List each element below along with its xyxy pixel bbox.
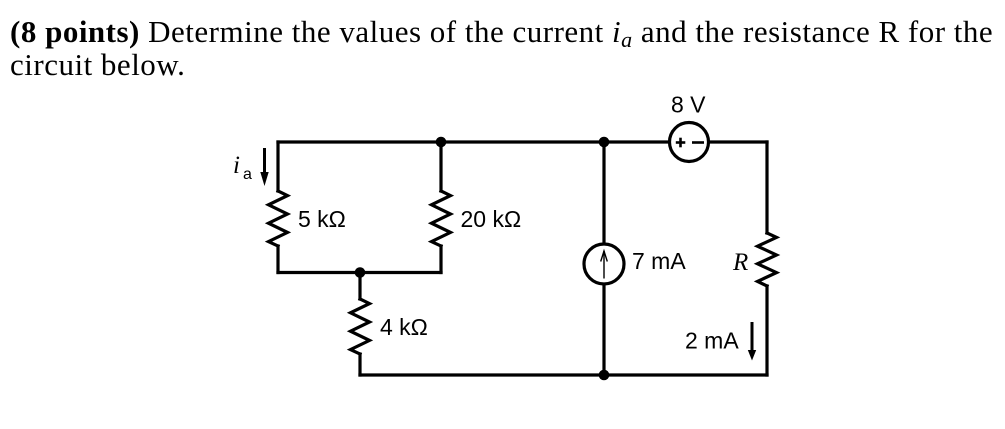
arrow for current i_a (down) [260, 148, 268, 186]
svg-text:R: R [732, 249, 748, 276]
svg-text:20 kΩ: 20 kΩ [461, 206, 522, 232]
wire: left branch above 5k resistor [276, 142, 279, 191]
node B: junction top at middle branch [599, 137, 610, 148]
node C: junction inner loop bottom at 4k [355, 267, 366, 278]
svg-text:7 mA: 7 mA [632, 248, 686, 274]
problem statement text [10, 15, 1005, 81]
wire: inner loop bottom horizontal [278, 271, 441, 274]
resistor 5 kOhm [269, 191, 288, 246]
svg-text:4 kΩ: 4 kΩ [380, 314, 428, 340]
resistor 20 kOhm [432, 191, 451, 246]
svg-text:2 mA: 2 mA [685, 328, 739, 354]
wire: middle branch above 7mA source [602, 142, 605, 244]
wire: 4k branch above resistor [358, 273, 361, 300]
wire: bottom horizontal [360, 373, 767, 376]
wire: top horizontal left segment [278, 140, 669, 143]
resistor R [758, 233, 777, 286]
current source arrow (7 mA, pointing up) [601, 251, 608, 279]
wire: 20k branch below resistor [439, 246, 442, 273]
resistor 4 kOhm [351, 299, 370, 354]
svg-text:i: i [233, 152, 240, 179]
wire: middle branch below 7mA source [602, 284, 605, 375]
svg-text:8 V: 8 V [671, 92, 706, 118]
svg-text:a: a [243, 166, 252, 183]
svg-text:5 kΩ: 5 kΩ [298, 206, 346, 232]
wire: left branch below 5k resistor [276, 246, 279, 273]
node A: junction top at 20k [436, 137, 447, 148]
wire: 4k branch below resistor [358, 354, 361, 375]
voltage source polarity minus sign [692, 141, 704, 144]
wire: top horizontal right segment (after 8V source) [709, 140, 767, 143]
wire: 20k branch above resistor [439, 142, 442, 191]
wire: right branch below resistor R [765, 286, 768, 375]
voltage source polarity plus sign [676, 138, 704, 148]
voltage source U1 circle (8 V) [670, 123, 709, 162]
current source I1 circle (7 mA) [584, 244, 624, 284]
arrow for 2 mA current (down) [748, 322, 756, 361]
node D: junction bottom at middle branch [599, 370, 610, 381]
wire: right branch above resistor R [765, 142, 768, 233]
